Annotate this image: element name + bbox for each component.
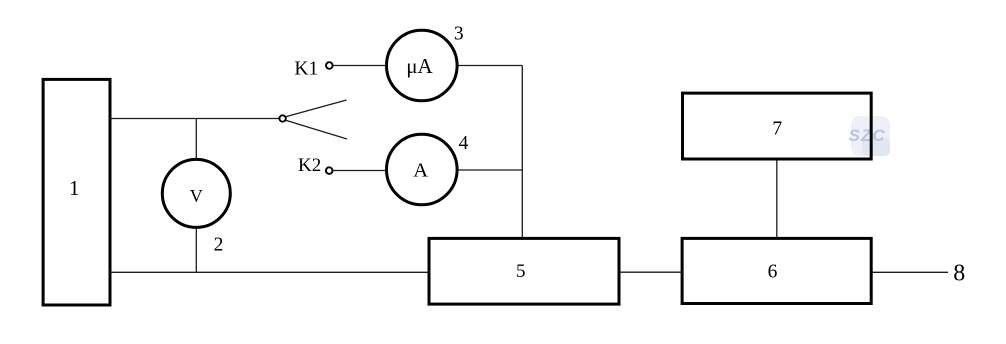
svg-text:3: 3 [454, 24, 464, 45]
svg-text:μA: μA [406, 54, 433, 78]
svg-text:2: 2 [214, 235, 224, 256]
svg-text:A: A [413, 160, 428, 182]
svg-text:5: 5 [516, 261, 526, 282]
svg-text:6: 6 [768, 261, 778, 282]
svg-text:4: 4 [459, 133, 469, 154]
svg-text:K2: K2 [298, 155, 321, 176]
svg-text:8: 8 [953, 261, 965, 287]
svg-text:V: V [190, 186, 203, 206]
svg-text:SZC: SZC [849, 126, 886, 145]
svg-text:K1: K1 [294, 58, 318, 79]
svg-text:1: 1 [69, 176, 80, 200]
svg-text:7: 7 [772, 119, 782, 140]
